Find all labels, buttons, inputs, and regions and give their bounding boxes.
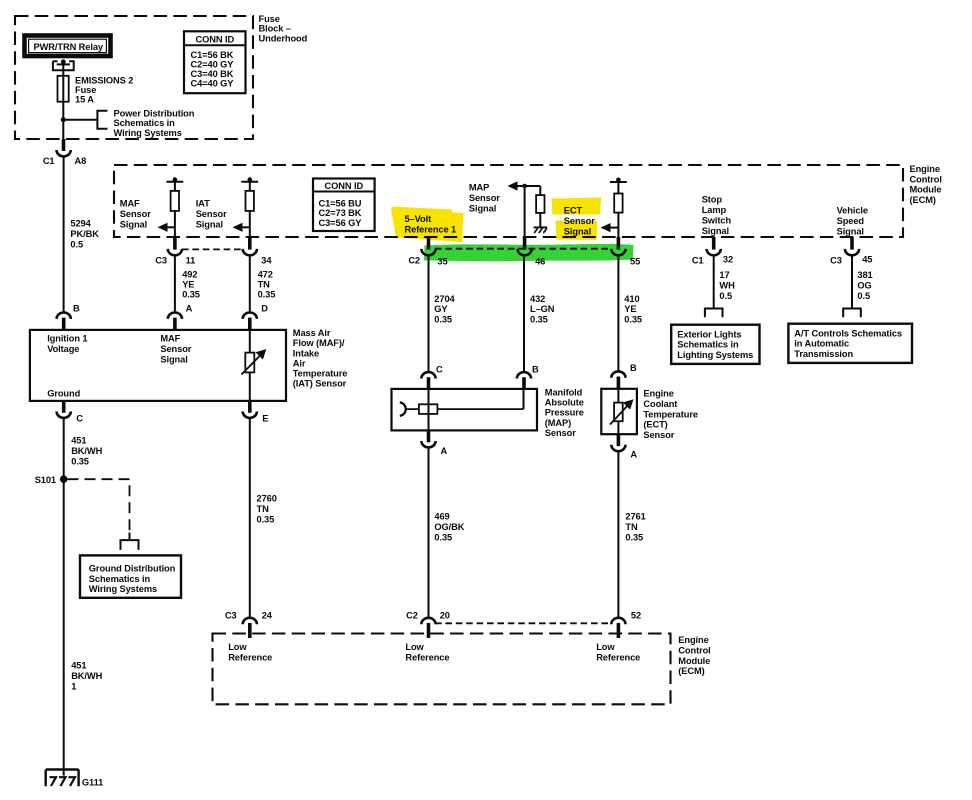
svg-text:451: 451 xyxy=(71,661,86,671)
connector pin 34 (IAT signal) xyxy=(248,237,252,250)
svg-text:Temperature: Temperature xyxy=(643,409,698,419)
svg-text:Sensor: Sensor xyxy=(120,209,151,219)
svg-text:A: A xyxy=(630,450,637,460)
connector D at MAF/IAT sensor (IAT signal) xyxy=(243,313,257,319)
svg-text:TN: TN xyxy=(257,504,270,514)
relay K: PWR/TRN Relay box xyxy=(25,36,111,57)
svg-text:IAT: IAT xyxy=(196,198,210,208)
svg-text:OG/BK: OG/BK xyxy=(434,522,464,532)
svg-text:Vehicle: Vehicle xyxy=(837,205,868,215)
svg-text:Sensor: Sensor xyxy=(643,430,674,440)
connector A below MAP sensor xyxy=(427,430,431,442)
svg-text:Module: Module xyxy=(678,656,710,666)
svg-text:Control: Control xyxy=(910,174,942,184)
dotted connector tie line pins 11-34 xyxy=(182,248,244,250)
svg-text:WH: WH xyxy=(719,281,735,291)
svg-text:(IAT) Sensor: (IAT) Sensor xyxy=(293,379,347,389)
svg-text:2704: 2704 xyxy=(434,294,455,304)
svg-text:GY: GY xyxy=(434,304,448,314)
connector B at MAP sensor (signal) xyxy=(517,372,531,378)
svg-text:Control: Control xyxy=(678,646,710,656)
svg-text:11: 11 xyxy=(186,256,196,266)
svg-text:Reference: Reference xyxy=(405,652,449,662)
svg-text:Low: Low xyxy=(228,642,247,652)
connector pin 52 (low reference) xyxy=(611,618,625,624)
fuse F: EMISSIONS 2 Fuse 15 A xyxy=(58,76,69,102)
svg-text:Underhood: Underhood xyxy=(259,33,308,43)
relay coil terminal symbol xyxy=(53,61,74,70)
svg-text:YE: YE xyxy=(624,304,636,314)
svg-text:Signal: Signal xyxy=(564,227,591,237)
box: Ground Distribution Schematics in Wiring Systems xyxy=(80,555,181,597)
svg-text:OG: OG xyxy=(857,281,871,291)
connector C below sensor box xyxy=(62,401,66,413)
svg-text:Temperature: Temperature xyxy=(293,369,348,379)
ECM internal pull-up for ECT: top rail xyxy=(610,181,627,183)
CONN ID table (fuse block) xyxy=(184,31,246,93)
svg-text:Low: Low xyxy=(596,642,615,652)
svg-text:Module: Module xyxy=(910,185,942,195)
CONN ID table (ECM) xyxy=(313,179,375,232)
svg-text:Engine: Engine xyxy=(910,164,940,174)
svg-text:ECT: ECT xyxy=(564,206,583,216)
svg-text:Reference 1: Reference 1 xyxy=(405,225,457,235)
box: Exterior Lights Schematics in Lighting Systems xyxy=(671,325,759,364)
svg-text:Absolute: Absolute xyxy=(545,398,584,408)
svg-text:CONN ID: CONN ID xyxy=(196,34,235,44)
MAP transducer diaphragm symbol xyxy=(400,402,406,416)
svg-text:Lighting Systems: Lighting Systems xyxy=(677,350,753,360)
svg-text:Ignition 1: Ignition 1 xyxy=(47,333,87,343)
svg-text:C: C xyxy=(76,414,83,424)
connector A below ECT sensor xyxy=(617,434,621,446)
svg-text:5294: 5294 xyxy=(70,219,91,229)
ground symbol (ECM internal) xyxy=(534,226,547,228)
connector A at MAF/IAT sensor (MAF signal) xyxy=(168,313,182,319)
svg-text:C2=73 BK: C2=73 BK xyxy=(319,208,362,218)
svg-text:D: D xyxy=(261,304,268,314)
dotted connector tie line pins 20-52 xyxy=(435,622,611,624)
wire from relay through fuse xyxy=(62,63,64,139)
svg-text:32: 32 xyxy=(723,254,733,264)
svg-text:0.35: 0.35 xyxy=(624,314,642,324)
svg-text:Schematics in: Schematics in xyxy=(89,574,151,584)
svg-text:472: 472 xyxy=(258,270,273,280)
svg-text:B: B xyxy=(73,304,80,314)
svg-text:PWR/TRN Relay: PWR/TRN Relay xyxy=(34,42,104,52)
svg-text:Lamp: Lamp xyxy=(702,205,727,215)
svg-text:410: 410 xyxy=(624,294,639,304)
svg-text:Signal: Signal xyxy=(469,203,496,213)
svg-text:B: B xyxy=(630,363,637,373)
svg-text:in Automatic: in Automatic xyxy=(794,339,849,349)
svg-text:A/T Controls Schematics: A/T Controls Schematics xyxy=(794,328,902,338)
svg-text:A: A xyxy=(186,304,193,314)
svg-text:TN: TN xyxy=(258,279,271,289)
svg-text:C1: C1 xyxy=(43,156,55,166)
svg-text:Fuse: Fuse xyxy=(75,85,96,95)
svg-text:0.5: 0.5 xyxy=(70,239,83,249)
svg-text:2761: 2761 xyxy=(625,512,645,522)
svg-text:C3=56 GY: C3=56 GY xyxy=(319,218,363,228)
arrow to ECT Sensor Signal label xyxy=(604,227,618,229)
ECM internal pull-up for MAF: top rail xyxy=(166,181,183,183)
svg-text:Stop: Stop xyxy=(702,194,723,204)
svg-text:0.35: 0.35 xyxy=(182,289,200,299)
thermistor (IAT) inside sensor box xyxy=(249,330,251,401)
svg-text:Sensor: Sensor xyxy=(564,216,595,226)
svg-text:Sensor: Sensor xyxy=(469,193,500,203)
resistor (IAT pull-up) xyxy=(249,182,251,228)
svg-text:MAF: MAF xyxy=(120,198,140,208)
svg-text:Block –: Block – xyxy=(259,24,291,34)
off-page bracket: A/T controls xyxy=(843,309,861,318)
wire circuit 381 OG 0.5 xyxy=(851,256,853,309)
connector B at ECT sensor xyxy=(611,371,625,377)
svg-text:Schematics in: Schematics in xyxy=(677,340,739,350)
ECM internal pull-up for IAT: top rail xyxy=(241,181,258,183)
svg-text:Engine: Engine xyxy=(678,635,708,645)
svg-text:C3: C3 xyxy=(225,610,237,620)
connector C3 pin 24 (low reference) xyxy=(243,618,257,624)
svg-text:Schematics in: Schematics in xyxy=(114,118,176,128)
svg-text:Transmission: Transmission xyxy=(794,349,853,359)
box: ECT sensor xyxy=(601,389,637,434)
fuse block underhood dashed enclosure xyxy=(15,16,253,139)
svg-text:Power Distribution: Power Distribution xyxy=(114,109,195,119)
off-page bracket: ground distribution xyxy=(121,540,139,550)
wire circuit 2760 TN 0.35 (IAT low ref) xyxy=(249,418,251,618)
svg-text:469: 469 xyxy=(434,512,449,522)
svg-text:C1=56 BU: C1=56 BU xyxy=(319,198,362,208)
svg-text:1: 1 xyxy=(71,682,76,692)
svg-text:Exterior Lights: Exterior Lights xyxy=(677,329,741,339)
connector pin 46 (MAP signal) xyxy=(523,237,527,250)
svg-text:24: 24 xyxy=(262,611,273,621)
resistor (MAF pull-up) xyxy=(174,182,176,228)
svg-text:Intake: Intake xyxy=(293,348,319,358)
svg-text:S101: S101 xyxy=(35,475,56,485)
svg-text:A8: A8 xyxy=(75,156,87,166)
svg-text:Voltage: Voltage xyxy=(47,344,79,354)
svg-text:C1=56 BK: C1=56 BK xyxy=(191,50,234,60)
svg-text:Signal: Signal xyxy=(702,226,729,236)
svg-text:C2=40 GY: C2=40 GY xyxy=(191,59,235,69)
svg-text:CONN ID: CONN ID xyxy=(325,181,364,191)
svg-text:432: 432 xyxy=(530,294,545,304)
wire circuit 17 WH 0.5 xyxy=(713,256,715,309)
svg-text:Ground Distribution: Ground Distribution xyxy=(89,564,176,574)
svg-text:(ECM): (ECM) xyxy=(678,666,704,676)
svg-text:Sensor: Sensor xyxy=(545,428,576,438)
svg-text:BK/WH: BK/WH xyxy=(71,671,102,681)
svg-text:52: 52 xyxy=(631,611,641,621)
svg-text:Wiring Systems: Wiring Systems xyxy=(114,128,182,138)
junction on power wire xyxy=(61,117,66,122)
box: MAP sensor xyxy=(392,389,538,431)
wire circuit 472 TN 0.35 xyxy=(249,256,251,314)
svg-text:(ECM): (ECM) xyxy=(910,195,936,205)
highlighter mark: green band over 5V reference row xyxy=(424,244,634,261)
wire pin46 riser inside ECM xyxy=(524,186,526,237)
svg-text:Reference: Reference xyxy=(596,652,640,662)
wire circuit 2704 GY 0.35 xyxy=(428,256,430,373)
svg-text:34: 34 xyxy=(261,256,272,266)
svg-text:MAF: MAF xyxy=(160,333,180,343)
svg-text:C2: C2 xyxy=(408,256,420,266)
svg-text:MAP: MAP xyxy=(469,182,489,192)
svg-text:Fuse: Fuse xyxy=(259,14,280,24)
svg-text:Sensor: Sensor xyxy=(160,344,191,354)
resistor (ECT pull-up) xyxy=(617,182,619,237)
svg-text:Pressure: Pressure xyxy=(545,408,584,418)
svg-text:0.35: 0.35 xyxy=(625,532,643,542)
svg-text:0.35: 0.35 xyxy=(71,457,89,467)
svg-text:0.35: 0.35 xyxy=(258,289,276,299)
connector C3 pin 45 (VSS) xyxy=(850,237,854,250)
svg-text:(MAP): (MAP) xyxy=(545,418,571,428)
svg-text:A: A xyxy=(441,446,448,456)
svg-text:Engine: Engine xyxy=(643,389,673,399)
ground G111 xyxy=(46,770,79,787)
svg-text:0.5: 0.5 xyxy=(857,291,870,301)
svg-text:2760: 2760 xyxy=(257,494,277,504)
wire to power distribution reference xyxy=(63,119,97,121)
arrow to MAP Sensor Signal label xyxy=(511,185,540,187)
svg-text:Wiring Systems: Wiring Systems xyxy=(89,584,157,594)
svg-text:Air: Air xyxy=(293,358,306,368)
svg-text:E: E xyxy=(262,414,268,424)
svg-text:C4=40 GY: C4=40 GY xyxy=(191,79,235,89)
svg-text:B: B xyxy=(532,365,539,375)
connector E below sensor box xyxy=(248,401,252,413)
svg-text:451: 451 xyxy=(71,436,86,446)
ECM bottom dashed enclosure xyxy=(213,634,671,705)
highlighter mark: yellow over ECT xyxy=(552,198,602,215)
svg-text:C2: C2 xyxy=(406,610,418,620)
arrow to MAF Sensor Signal label xyxy=(161,226,175,228)
ECM top dashed enclosure xyxy=(114,165,903,237)
svg-text:C1: C1 xyxy=(692,255,704,265)
connector C2 pin 35 (5V ref) xyxy=(427,237,431,250)
dotted connector tie line pins 35-55 xyxy=(435,248,612,250)
svg-text:Signal: Signal xyxy=(837,227,864,237)
box: MAF/IAT sensor xyxy=(30,330,286,401)
svg-text:46: 46 xyxy=(535,257,545,267)
svg-text:Speed: Speed xyxy=(837,216,865,226)
svg-text:0.5: 0.5 xyxy=(719,291,732,301)
svg-text:PK/BK: PK/BK xyxy=(70,229,99,239)
dashed wire to ground distribution xyxy=(68,479,130,532)
connector C1 pin 32 (stop lamp) xyxy=(712,237,716,250)
svg-text:55: 55 xyxy=(630,257,640,267)
arrow to IAT Sensor Signal label xyxy=(236,226,250,228)
thermistor (ECT) xyxy=(617,389,619,434)
svg-text:45: 45 xyxy=(862,254,872,264)
connector B at MAF/IAT sensor (ignition feed) xyxy=(57,313,71,319)
wire circuit 410 YE 0.35 xyxy=(617,256,619,373)
svg-text:5–Volt: 5–Volt xyxy=(405,214,432,224)
svg-text:(ECT): (ECT) xyxy=(643,420,667,430)
connector C2 pin 20 (low reference) xyxy=(421,618,435,624)
svg-text:Sensor: Sensor xyxy=(196,209,227,219)
svg-text:Low: Low xyxy=(405,642,424,652)
highlighter mark: yellow over Signal xyxy=(556,221,598,241)
svg-text:Flow (MAF)/: Flow (MAF)/ xyxy=(293,338,345,348)
svg-text:20: 20 xyxy=(440,611,450,621)
svg-text:0.35: 0.35 xyxy=(257,515,275,525)
off-page bracket: power distribution xyxy=(97,111,107,129)
svg-text:0.35: 0.35 xyxy=(530,314,548,324)
connector C3 pin 11 (MAF signal) xyxy=(173,237,177,250)
svg-text:17: 17 xyxy=(719,270,729,280)
connector C1 pin A8 (fuse block output) xyxy=(62,139,66,151)
svg-text:381: 381 xyxy=(857,270,872,280)
svg-text:Ground: Ground xyxy=(47,388,80,398)
wire circuit 451 BK/WH 0.35 xyxy=(63,418,65,776)
resistor (MAP internal) xyxy=(539,186,541,227)
svg-text:C3: C3 xyxy=(155,255,167,265)
svg-text:Manifold: Manifold xyxy=(545,388,583,398)
svg-text:Signal: Signal xyxy=(160,354,187,364)
off-page bracket: exterior lights xyxy=(705,309,723,318)
svg-text:C3=40 BK: C3=40 BK xyxy=(191,69,234,79)
svg-text:15 A: 15 A xyxy=(75,95,94,105)
wire circuit 469 OG/BK 0.35 xyxy=(428,448,430,618)
svg-text:0.35: 0.35 xyxy=(434,532,452,542)
highlighter mark: yellow over 5-Volt Reference 1 xyxy=(391,209,464,243)
wire circuit 5294 PK/BK 0.5 xyxy=(63,157,65,314)
wire circuit 432 L-GN 0.35 xyxy=(523,256,525,373)
splice S101 xyxy=(60,475,68,483)
wire circuit 492 YE 0.35 xyxy=(174,256,176,314)
svg-text:35: 35 xyxy=(437,257,447,267)
box: A/T Controls Schematics in Automatic Transmission xyxy=(788,324,912,363)
svg-text:Signal: Signal xyxy=(120,220,147,230)
svg-text:L–GN: L–GN xyxy=(530,304,555,314)
svg-text:Signal: Signal xyxy=(196,220,223,230)
svg-text:G111: G111 xyxy=(82,778,103,788)
svg-text:C: C xyxy=(436,365,443,375)
svg-text:Reference: Reference xyxy=(228,652,272,662)
svg-text:C3: C3 xyxy=(830,255,842,265)
svg-text:Mass Air: Mass Air xyxy=(293,328,331,338)
svg-text:BK/WH: BK/WH xyxy=(71,446,102,456)
svg-text:Coolant: Coolant xyxy=(643,399,677,409)
wire circuit 2761 TN 0.35 xyxy=(617,451,619,617)
svg-text:YE: YE xyxy=(182,279,194,289)
svg-text:0.35: 0.35 xyxy=(434,314,452,324)
connector C at MAP sensor (5V ref) xyxy=(421,372,435,378)
wire MAF inside ECM down to pin xyxy=(174,227,176,237)
svg-text:EMISSIONS 2: EMISSIONS 2 xyxy=(75,76,133,86)
connector pin 55 (ECT signal) xyxy=(617,237,621,250)
svg-text:Switch: Switch xyxy=(702,216,732,226)
svg-text:TN: TN xyxy=(625,522,638,532)
svg-text:492: 492 xyxy=(182,270,197,280)
